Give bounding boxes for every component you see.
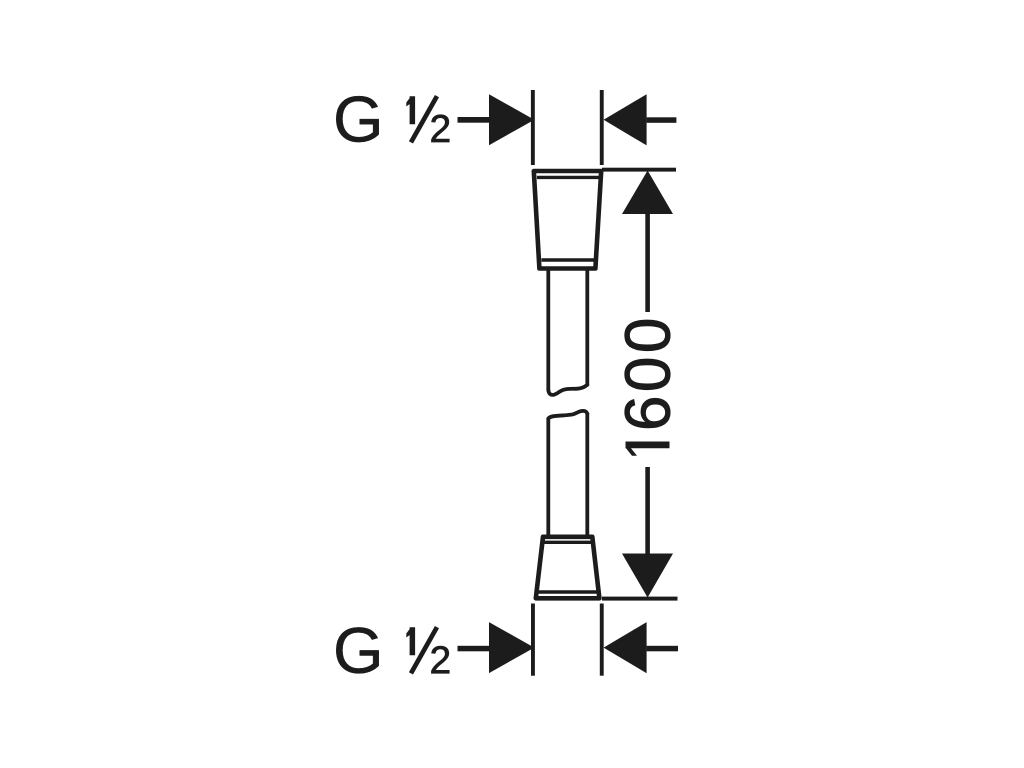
wire: top dimension tail line right xyxy=(647,117,677,123)
wire: 1600 bottom extension line xyxy=(602,597,678,601)
node: bottom extension line right xyxy=(600,604,604,676)
hose upper tube right edge xyxy=(585,267,589,385)
node: bottom extension line left xyxy=(531,604,535,676)
label G (bottom) xyxy=(336,627,378,673)
label 1/2 numerator (top) xyxy=(406,96,415,124)
label 1/2 denominator (bottom) xyxy=(431,646,449,673)
label 1600 digit one xyxy=(626,442,670,456)
top dimension arrow left xyxy=(489,94,534,145)
label 1/2 slash (top) xyxy=(409,95,439,144)
hose top nut inner line lower xyxy=(542,258,595,261)
hose lower tube left edge xyxy=(546,419,550,537)
hose upper tube left edge xyxy=(546,267,550,391)
label 1/2 denominator (top) xyxy=(431,115,449,142)
1600 dimension arrow down xyxy=(622,554,673,598)
wire: top dimension tail line left xyxy=(458,117,490,123)
node: top extension line left xyxy=(531,90,535,165)
hose upper tube break edge xyxy=(548,385,587,395)
node: top extension line right xyxy=(600,90,604,165)
wire: bottom dimension tail line right xyxy=(647,646,678,652)
hose top nut inner line upper xyxy=(537,176,600,179)
hose lower tube right edge xyxy=(585,413,589,536)
wire: 1600 dimension line upper segment xyxy=(645,213,650,312)
label 1/2 numerator (bottom) xyxy=(406,627,415,655)
hose bottom nut inner line lower xyxy=(537,590,600,593)
hose lower tube break edge xyxy=(548,411,587,419)
1600 dimension arrow up xyxy=(622,171,673,215)
top dimension arrow right xyxy=(604,94,647,145)
hose bottom nut cone xyxy=(536,537,600,599)
label 1/2 slash (bottom) xyxy=(409,626,439,675)
hose bottom nut inner line upper xyxy=(542,541,594,544)
wire: 1600 top extension line xyxy=(602,168,676,172)
hose top nut cone xyxy=(534,171,601,269)
label G (top) xyxy=(336,96,378,142)
label 1600 xyxy=(625,320,670,428)
wire: bottom dimension tail line left xyxy=(458,646,490,652)
bottom dimension arrow left xyxy=(489,622,534,673)
bottom dimension arrow right xyxy=(604,622,647,673)
wire: 1600 dimension line lower segment xyxy=(645,467,650,554)
